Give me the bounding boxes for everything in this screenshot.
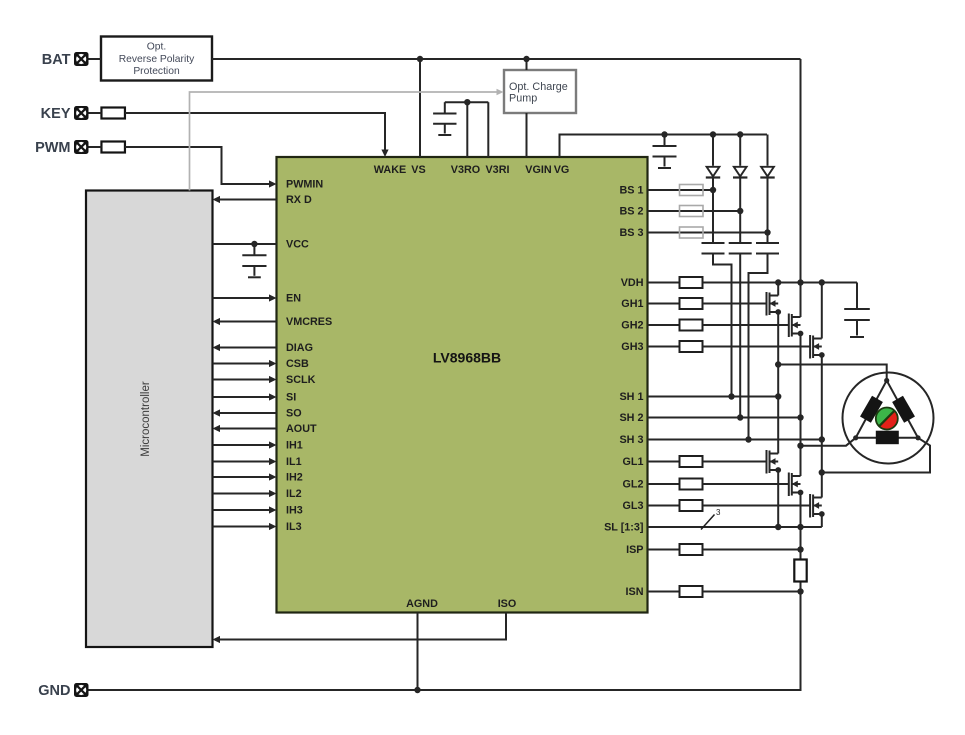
svg-text:IL1: IL1	[286, 456, 302, 468]
node charge pump junction on BAT rail	[523, 56, 529, 62]
wire ISN row	[648, 591, 680, 593]
node VDH rail battery junction	[797, 279, 803, 285]
transistor Q6 low-side NMOS phase3	[810, 494, 825, 518]
node phase2 SH2 junction	[797, 414, 803, 420]
wire V3RO-V3RI top link	[445, 101, 489, 103]
terminal PWM	[35, 140, 88, 156]
node bootstrap 1 SH1 junction	[728, 393, 734, 399]
wire GL2 to Q5 gate	[648, 483, 680, 485]
wire GH3 to Q3 gate	[648, 346, 680, 348]
wire bootstrap column 3 lower	[767, 178, 769, 244]
svg-text:Protection: Protection	[133, 66, 180, 77]
svg-text:IH1: IH1	[286, 440, 303, 452]
wire bootstrap cap 2 to SH2	[739, 254, 741, 418]
svg-text:Opt. Charge: Opt. Charge	[509, 81, 568, 93]
wire charge pump top lead	[526, 59, 528, 70]
wire EN	[213, 297, 271, 299]
node phase2 motor junction	[797, 443, 803, 449]
wire VDH rail	[703, 282, 858, 284]
wire IH2	[213, 476, 271, 478]
node VDH rail phase3 junction	[819, 279, 825, 285]
svg-text:BAT: BAT	[42, 52, 71, 68]
wire bootstrap column 3 upper	[767, 135, 769, 166]
terminal BAT	[42, 52, 89, 68]
wire motor phase2 lead	[801, 438, 856, 446]
wire optional charge pump control (gray)	[190, 92, 498, 191]
svg-text:GL2: GL2	[623, 479, 644, 491]
wire SH2 row	[648, 417, 801, 419]
block Opt. Charge Pump	[504, 70, 576, 113]
node BS3 junction	[764, 229, 770, 235]
wire Q1 drain to VDH rail	[777, 283, 779, 296]
node ISP junction	[797, 546, 803, 552]
wire VCC from microcontroller	[213, 243, 277, 245]
resistor R10 GL1	[680, 456, 703, 467]
wire GH2 to Q2 gate	[648, 324, 680, 326]
capacitor C5 bootstrap 2	[729, 243, 752, 254]
wire BS3 to bootstrap column 3	[648, 232, 768, 234]
node BS1 junction	[710, 187, 716, 193]
node ISN junction	[797, 588, 803, 594]
block Microcontroller U2	[86, 191, 213, 648]
arrow into WAKE pin	[381, 150, 388, 158]
arrow gray into charge pump	[497, 89, 504, 96]
wire KEY R1 to WAKE pin	[125, 113, 385, 151]
wire CSB	[213, 363, 271, 365]
svg-text:VCC: VCC	[286, 239, 309, 251]
node bootstrap 3 SH3 junction	[745, 436, 751, 442]
svg-text:Pump: Pump	[509, 93, 537, 105]
resistor R2 PWM series	[101, 142, 125, 153]
transistor Q1 high-side NMOS phase1	[767, 292, 782, 316]
resistor R6 VDH	[680, 277, 703, 288]
wire Q3 drain to VDH rail	[821, 283, 823, 339]
svg-text:BS 1: BS 1	[619, 185, 643, 197]
wire bootstrap column 1 lower	[712, 178, 714, 244]
wire SH3 row	[648, 439, 822, 441]
wire PWM R2 to PWMIN pin	[125, 147, 270, 184]
resistor R15 ISN	[680, 586, 703, 597]
node VG capacitor junction	[661, 131, 667, 137]
svg-text:SO: SO	[286, 408, 302, 420]
svg-text:AOUT: AOUT	[286, 423, 317, 435]
node phase3 motor junction	[819, 469, 825, 475]
capacitor C1 V3RO bypass with ground	[433, 102, 456, 135]
svg-text:ISO: ISO	[498, 598, 517, 610]
svg-text:GND: GND	[38, 683, 70, 699]
wire charge pump to VGIN pin	[526, 113, 528, 157]
wire bootstrap column 2 upper	[739, 135, 741, 166]
arrow into PWMIN pin	[269, 180, 277, 187]
wire IH1	[213, 444, 271, 446]
transistor Q3 high-side NMOS phase3	[810, 335, 825, 359]
wire bootstrap cap 3 to SH3	[749, 254, 768, 440]
wire IL1	[213, 461, 271, 463]
capacitor C2 VG bypass with ground	[653, 135, 677, 169]
svg-text:IH3: IH3	[286, 505, 303, 517]
svg-text:3: 3	[716, 508, 721, 517]
wire phase2 column Q2 source to Q5 drain	[800, 334, 802, 477]
svg-text:LV8968BB: LV8968BB	[433, 350, 501, 366]
capacitor C4 bootstrap 1	[702, 243, 725, 254]
node V3RO junction	[464, 99, 470, 105]
svg-text:PWM: PWM	[35, 140, 70, 156]
svg-text:KEY: KEY	[41, 106, 71, 122]
wire GH1 to Q1 gate	[648, 303, 680, 305]
wire bootstrap column 2 lower	[739, 178, 741, 244]
node bootstrap diode 1 rail junction	[710, 131, 716, 137]
svg-text:BS 3: BS 3	[619, 227, 643, 239]
wire IL2	[213, 493, 271, 495]
svg-text:Reverse Polarity: Reverse Polarity	[119, 54, 195, 65]
resistor R7 GH1	[680, 298, 703, 309]
node bootstrap 2 SH2 junction	[737, 414, 743, 420]
wire AGND pin to ground line	[417, 613, 419, 691]
resistor R8 GH2	[680, 320, 703, 331]
wire phase1 column Q1 source to Q4 drain	[777, 312, 779, 454]
capacitor C7 VDH bypass with ground	[844, 283, 870, 338]
wire SI	[213, 396, 271, 398]
wire SO	[219, 412, 277, 414]
svg-text:VG: VG	[554, 164, 570, 176]
resistor R1 KEY series	[101, 108, 125, 119]
wire SH1 row	[648, 396, 779, 398]
resistor R3 BS1 (optional, gray)	[680, 185, 704, 196]
bus slash 3 on SL	[701, 508, 721, 530]
wire GL1 to Q4 gate	[648, 461, 680, 463]
svg-text:IH2: IH2	[286, 472, 303, 484]
capacitor C6 bootstrap 3	[756, 243, 779, 254]
arrow ISO into microcontroller	[213, 636, 221, 643]
wire KEY terminal to R1	[89, 112, 102, 114]
resistor R13 ISP	[680, 544, 703, 555]
node BS2 junction	[737, 208, 743, 214]
svg-text:IL3: IL3	[286, 521, 302, 533]
wire RX D to microcontroller	[219, 199, 277, 201]
wire V3RO pin drop	[466, 102, 468, 157]
node AGND ground junction	[414, 687, 420, 693]
svg-text:WAKE: WAKE	[374, 164, 406, 176]
wire VS pin drop	[419, 59, 421, 157]
wire VMCRES	[219, 321, 277, 323]
wire bootstrap cap 1 to SH1	[713, 254, 732, 397]
svg-text:GH1: GH1	[621, 298, 643, 310]
terminal GND	[38, 683, 88, 699]
svg-text:VGIN: VGIN	[525, 164, 552, 176]
svg-text:SI: SI	[286, 392, 296, 404]
wire SCLK	[213, 379, 271, 381]
wire VG pin to bootstrap rail	[560, 135, 768, 158]
wire VDH pin to rail	[648, 282, 680, 284]
svg-text:SH 2: SH 2	[619, 412, 643, 424]
transistor Q2 high-side NMOS phase2	[789, 314, 804, 338]
svg-text:AGND: AGND	[406, 598, 438, 610]
svg-text:BS 2: BS 2	[619, 206, 643, 218]
wire GND line	[89, 582, 801, 691]
IC U1 LV8968BB body	[277, 157, 648, 613]
wire Q4 source to SL rail	[777, 470, 779, 527]
resistor R4 BS2 (optional, gray)	[680, 206, 704, 217]
svg-text:VDH: VDH	[621, 277, 644, 289]
wire ISO to microcontroller	[219, 613, 506, 640]
wire Q5 source to SL rail and shunt	[800, 493, 802, 560]
svg-text:GH2: GH2	[621, 320, 643, 332]
svg-text:ISP: ISP	[626, 544, 643, 556]
wire Q2 drain to VDH rail	[800, 283, 802, 318]
svg-text:GL1: GL1	[623, 456, 644, 468]
transistor Q5 low-side NMOS phase2	[789, 473, 804, 497]
svg-text:CSB: CSB	[286, 358, 309, 370]
wire phase3 column Q3 source to Q6 drain	[821, 355, 823, 498]
node SL phase1 junction	[775, 524, 781, 530]
node SL phase2 junction	[797, 524, 803, 530]
wire GL3 to Q6 gate	[648, 505, 680, 507]
node bootstrap diode 2 rail junction	[737, 131, 743, 137]
node phase1 motor junction	[775, 361, 781, 367]
resistor R9 GH3	[680, 341, 703, 352]
wire BAT terminal to protection box	[89, 58, 102, 60]
wire ISP row	[648, 549, 680, 551]
svg-text:SL [1:3]: SL [1:3]	[604, 522, 643, 534]
svg-text:Microcontroller: Microcontroller	[140, 381, 152, 457]
svg-text:DIAG: DIAG	[286, 342, 313, 354]
resistor R12 GL3	[680, 500, 703, 511]
svg-text:IL2: IL2	[286, 488, 302, 500]
motor M1 3-phase BLDC	[843, 373, 934, 464]
svg-text:V3RO: V3RO	[451, 164, 480, 176]
svg-text:PWMIN: PWMIN	[286, 179, 323, 191]
svg-text:SCLK: SCLK	[286, 374, 316, 386]
diode D1 bootstrap	[706, 167, 720, 178]
node phase1 SH1 junction	[775, 393, 781, 399]
node VS junction on BAT rail	[417, 56, 423, 62]
wire AOUT	[219, 428, 277, 430]
node phase3 SH3 junction	[819, 436, 825, 442]
wire V3RI pin drop	[487, 102, 489, 157]
wire SL row	[648, 526, 822, 528]
svg-text:V3RI: V3RI	[485, 164, 509, 176]
svg-text:ISN: ISN	[626, 586, 644, 598]
svg-text:RX D: RX D	[286, 194, 312, 206]
wire bootstrap column 1 upper	[712, 135, 714, 166]
svg-text:EN: EN	[286, 293, 301, 305]
wire BS2 to bootstrap column 2	[648, 210, 741, 212]
svg-text:GL3: GL3	[623, 500, 644, 512]
wire BAT rail drop to VDH rail	[800, 59, 802, 283]
wire BS1 to bootstrap column 1	[648, 189, 714, 191]
resistor R5 BS3 (optional, gray)	[680, 227, 704, 238]
wire DIAG	[219, 347, 277, 349]
wire motor phase3 lead	[822, 438, 930, 473]
wire IH3	[213, 509, 271, 511]
block Opt. Reverse Polarity Protection	[101, 37, 212, 81]
transistor Q4 low-side NMOS phase1	[767, 450, 782, 474]
resistor R14 current shunt	[794, 560, 806, 582]
svg-text:VS: VS	[411, 164, 425, 176]
node VDH rail phase1 junction	[775, 279, 781, 285]
wire PWM terminal to R2	[89, 146, 102, 148]
svg-text:SH 3: SH 3	[619, 434, 643, 446]
wire IL3	[213, 526, 271, 528]
svg-text:GH3: GH3	[621, 341, 643, 353]
svg-text:VMCRES: VMCRES	[286, 316, 332, 328]
wire BAT rail from protection box to right rail	[212, 58, 801, 60]
terminal KEY	[41, 106, 89, 122]
diode D3 bootstrap	[760, 167, 774, 178]
node VCC capacitor junction	[251, 241, 257, 247]
svg-text:Opt.: Opt.	[147, 42, 166, 53]
svg-text:SH 1: SH 1	[619, 391, 643, 403]
motor rotor indicator (green/red disc)	[876, 407, 898, 429]
wire Q6 source to SL rail	[821, 514, 823, 527]
wire motor phase1 lead	[778, 365, 887, 381]
capacitor C3 VCC bypass with ground	[242, 244, 266, 277]
diode D2 bootstrap	[733, 167, 747, 178]
resistor R11 GL2	[680, 479, 703, 490]
